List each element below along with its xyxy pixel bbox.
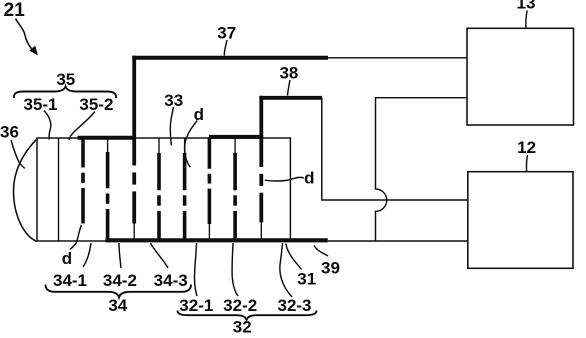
leader 35-1	[44, 111, 51, 140]
leader d (right)	[265, 177, 304, 181]
svg-text:34-3: 34-3	[154, 271, 188, 290]
electrode finger F8 / feed of electrode 38 (x=261.3)	[259, 96, 263, 241]
electrode finger F3 / feed of electrode 37 (x=134.2)	[132, 56, 136, 240]
svg-text:21: 21	[4, 0, 26, 21]
leader 39	[314, 246, 328, 257]
leader 33	[170, 107, 173, 146]
leader 13	[526, 11, 527, 29]
leader 31	[286, 244, 302, 270]
svg-text:39: 39	[321, 259, 340, 278]
leader 32-3	[280, 243, 292, 297]
svg-text:d: d	[194, 105, 204, 124]
brace under 34-1..34-3	[46, 285, 192, 298]
brace over 35-1 / 35-2	[14, 87, 116, 99]
leader d (top)	[185, 121, 198, 168]
svg-text:d: d	[304, 169, 314, 188]
svg-text:12: 12	[517, 138, 536, 157]
arrow from label 21	[16, 19, 34, 51]
wire from ground lead 39 to drive circuit 12	[328, 240, 468, 242]
svg-text:35-2: 35-2	[79, 95, 113, 114]
svg-text:d: d	[62, 249, 72, 268]
electrode finger F7 (x=235.1, bottom-fed)	[234, 139, 236, 241]
leader 12	[526, 155, 527, 172]
svg-text:37: 37	[217, 23, 236, 42]
leader 32-1	[195, 243, 197, 296]
leader 35-2	[69, 112, 95, 141]
electrode finger F2 (x=107.6, bottom-fed)	[107, 140, 109, 241]
svg-text:35-1: 35-1	[23, 95, 57, 114]
svg-text:32-3: 32-3	[277, 296, 311, 315]
substrate body 30	[37, 138, 290, 241]
electrode finger F1 (x=83, top-fed)	[81, 140, 85, 224]
leader d (bottom)	[70, 225, 81, 250]
leader 34-2	[119, 243, 121, 268]
top electrode bus bar 1	[78, 136, 137, 140]
wire from 37 to drive circuit 13	[328, 57, 467, 59]
signal electrode lead 38	[259, 96, 322, 100]
top electrode bus bar 2	[209, 135, 263, 139]
leader 32-2	[232, 243, 238, 296]
svg-text:33: 33	[164, 91, 183, 110]
brace under 32-1..32-3	[178, 311, 317, 320]
drive circuit box 13	[467, 28, 574, 125]
leader 34-3	[151, 243, 169, 268]
svg-text:32: 32	[233, 317, 252, 333]
leader 38	[288, 80, 291, 96]
waveguide line	[58, 138, 60, 241]
svg-text:34: 34	[108, 296, 127, 315]
electrode finger F6 (x=209.4, top-fed)	[208, 139, 212, 241]
svg-text:32-1: 32-1	[179, 296, 213, 315]
wire from 38 to drive circuit 12	[322, 98, 468, 200]
drive circuit box 12	[468, 172, 573, 269]
lens 36	[14, 138, 38, 241]
leader 34-1	[83, 243, 91, 267]
signal electrode lead 37	[132, 56, 328, 60]
svg-text:36: 36	[0, 123, 19, 142]
wire from drive circuit 13 to ground lead (with crossover hump)	[376, 98, 468, 241]
svg-text:32-2: 32-2	[223, 296, 257, 315]
electrode finger F4 (x=159, bottom-fed)	[158, 139, 160, 241]
electrode finger F5 (x=184.6, bottom-fed)	[184, 139, 186, 241]
svg-text:34-1: 34-1	[53, 271, 87, 290]
svg-text:31: 31	[297, 269, 316, 288]
svg-text:35: 35	[56, 70, 75, 89]
svg-text:38: 38	[279, 64, 298, 83]
ground electrode bar 31 with lead 39	[106, 238, 328, 242]
svg-text:34-2: 34-2	[103, 271, 137, 290]
leader 36	[11, 140, 25, 168]
svg-text:13: 13	[517, 0, 536, 13]
leader 37	[224, 40, 227, 56]
